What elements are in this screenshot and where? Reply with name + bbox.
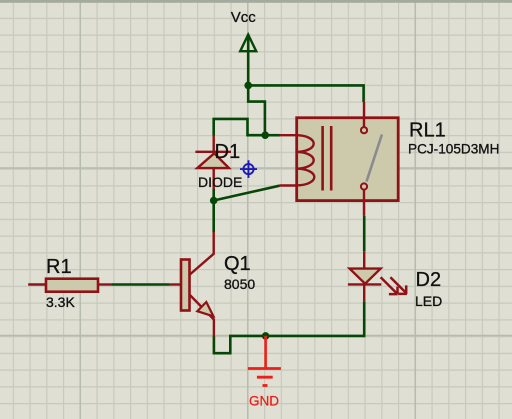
svg-text:3.3K: 3.3K: [46, 294, 75, 310]
junction node at D1 anode / collector: [210, 197, 218, 205]
ground bar 3: [263, 384, 268, 387]
LED D2 cathode bar: [348, 283, 381, 285]
wire Vcc to junction: [247, 34, 250, 85]
resistor R1 body: [46, 279, 98, 292]
wire emitter to ground node: [214, 336, 266, 353]
wire D1 anode to relay coil pin 2 (diagonal): [214, 186, 280, 201]
wire D1 anode to node: [212, 189, 215, 201]
diode D1 top pin: [212, 136, 214, 153]
ground bar 2: [257, 376, 273, 379]
svg-text:GND: GND: [249, 394, 279, 409]
wire junction down to coil node: [248, 85, 265, 135]
svg-text:D2: D2: [416, 269, 442, 291]
relay core bar 1: [321, 126, 324, 191]
relay switch top pin: [363, 102, 365, 127]
resistor R1 right pin: [98, 283, 112, 285]
relay RL1 body: [297, 118, 399, 201]
junction node at ground: [262, 332, 270, 340]
diode D1 cathode bar: [195, 151, 231, 153]
resistor R1 left pin: [28, 283, 46, 285]
wire ground node to LED column: [266, 335, 365, 338]
svg-text:8050: 8050: [224, 276, 255, 292]
ground wire: [264, 336, 267, 369]
svg-text:D1: D1: [215, 141, 241, 163]
relay coil arcs: [297, 135, 314, 185]
diode D1 bottom pin: [212, 168, 214, 189]
svg-text:PCJ-105D3MH: PCJ-105D3MH: [408, 142, 499, 157]
junction node at coil pin 1: [261, 131, 269, 139]
relay switch top contact circle: [361, 127, 367, 133]
relay switch bottom pin: [363, 190, 365, 216]
LED D2 anode pin: [363, 251, 365, 268]
svg-text:Vcc: Vcc: [231, 9, 257, 26]
origin marker (blue crosshair): [240, 160, 257, 178]
svg-text:DIODE: DIODE: [198, 174, 242, 190]
transistor Q1 emitter: [189, 295, 214, 337]
transistor Q1 base pin: [169, 283, 182, 285]
relay coil pin 1: [280, 134, 299, 136]
junction node at Vcc split: [244, 82, 252, 90]
relay switch blade: [367, 135, 382, 182]
transistor Q1 base bar: [181, 260, 190, 311]
svg-text:R1: R1: [46, 256, 72, 278]
top window band: [0, 0, 512, 3]
svg-text:RL1: RL1: [409, 120, 446, 142]
wire LED cathode down: [363, 301, 366, 337]
transistor Q1 emitter arrowhead: [197, 302, 213, 316]
LED D2 emission arrow 1: [381, 277, 398, 294]
relay switch bottom contact circle: [361, 183, 367, 189]
LED D2 cathode pin: [363, 284, 365, 301]
LED D2 emission arrow 2: [390, 277, 407, 294]
transistor Q1 collector: [189, 232, 213, 275]
LED D2 triangle: [350, 269, 381, 284]
wire collector stub: [212, 201, 215, 233]
wire junction to relay switch common: [248, 85, 363, 102]
wire base R1 to Q1: [112, 283, 169, 286]
diode D1 triangle: [197, 153, 229, 168]
wire relay switch to LED: [363, 216, 366, 251]
power terminal arrow symbol: [240, 35, 256, 52]
svg-text:Q1: Q1: [224, 253, 251, 275]
wire coil node to relay coil pin 1: [265, 134, 280, 137]
wire D1 cathode route: [214, 119, 265, 136]
svg-text:LED: LED: [415, 293, 442, 309]
relay core bar 2: [330, 126, 333, 191]
ground bar 1: [248, 367, 281, 370]
relay coil pin 2: [280, 184, 299, 186]
